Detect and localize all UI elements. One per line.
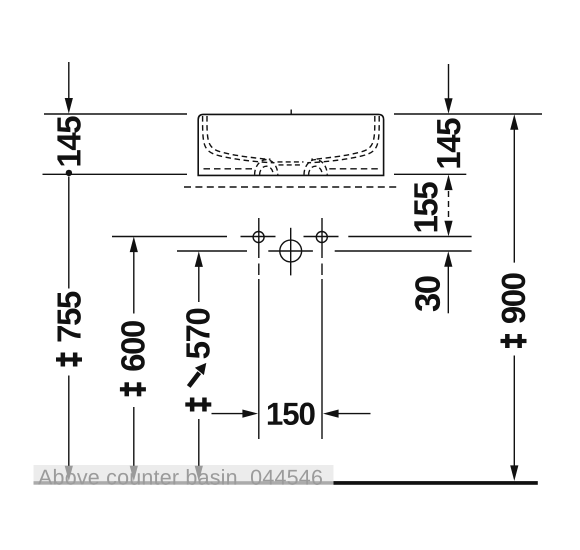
dim 755 shaft lower xyxy=(68,376,70,467)
basin interior dashed profile left xyxy=(203,116,275,163)
basin outline xyxy=(198,114,383,175)
dim 600 arrowhead top xyxy=(130,237,138,253)
dim 570 diagonal bold arrow head xyxy=(195,363,206,375)
dim 30 arrowhead up xyxy=(444,251,452,267)
label 755 xyxy=(58,292,81,342)
dim 150 right extension line xyxy=(321,279,323,439)
dim 570 shaft upper xyxy=(198,266,200,302)
dim 600 shaft upper xyxy=(133,252,135,314)
dim 155 arrowhead up xyxy=(444,175,452,191)
dim 145 left arrow shaft xyxy=(68,62,70,99)
drain arch right xyxy=(304,160,327,175)
small holes level line segments xyxy=(112,236,227,238)
big hole level line segments xyxy=(177,250,247,252)
dashed line below basin xyxy=(184,186,398,188)
rim top reference line right xyxy=(394,113,542,115)
svg-text:Above counter basin 044546: Above counter basin 044546 xyxy=(38,466,323,490)
counter reference line right xyxy=(394,173,466,175)
floor line gray part xyxy=(34,481,334,484)
label 155 xyxy=(414,182,437,231)
dim 155 dashed shaft xyxy=(448,191,450,221)
tap hole vertical centreline xyxy=(290,228,292,276)
symbol adj 900 xyxy=(501,334,527,348)
dim 145 right arrowhead xyxy=(444,98,452,114)
basin inner bottom dashed line xyxy=(204,168,253,170)
label 30 xyxy=(415,276,440,311)
faucet hole left vertical centreline xyxy=(258,218,260,258)
dim 150 left shaft xyxy=(212,413,244,415)
dim 600 arrowhead bottom (gray) xyxy=(130,466,138,482)
symbol adj 600 xyxy=(120,382,146,396)
label 145 left xyxy=(57,116,80,165)
faucet hole right vertical centreline xyxy=(321,218,323,258)
faucet hole right xyxy=(316,232,327,243)
faucet hole left xyxy=(253,232,264,243)
symbol adj 570 xyxy=(185,398,211,412)
label 900 xyxy=(502,273,526,323)
symbol adj 755 xyxy=(56,353,82,367)
counter reference line left xyxy=(43,173,188,175)
basin centre tick xyxy=(290,110,292,115)
dim 145 right arrow shaft xyxy=(448,64,450,99)
dim 900 arrowhead top xyxy=(510,114,518,130)
label 600 xyxy=(121,321,145,371)
dim 150 arrowhead left xyxy=(242,410,258,418)
dim 570 diagonal bold arrow shaft xyxy=(189,373,200,387)
dim 900 shaft upper xyxy=(513,129,515,263)
drain arch left xyxy=(255,160,278,175)
dim 900 shaft lower xyxy=(513,356,515,467)
dim 150 left extension line xyxy=(258,279,260,439)
floor line black part xyxy=(334,481,538,485)
dim 570 arrowhead top xyxy=(195,251,203,267)
dim 150 arrowhead right xyxy=(323,409,339,417)
rim top reference line left xyxy=(44,113,187,115)
reference dot on counter line xyxy=(66,170,72,176)
dim 30 shaft xyxy=(447,266,449,313)
dim 150 right shaft xyxy=(338,413,371,415)
dim 600 shaft lower xyxy=(133,407,135,466)
dim 570 arrowhead bottom (gray) xyxy=(195,466,203,482)
caption band xyxy=(34,465,334,485)
dim 155 arrowhead down xyxy=(444,221,452,237)
tap hole big xyxy=(280,240,302,262)
dim 570 shaft lower xyxy=(198,419,200,466)
label 570 xyxy=(186,309,210,359)
dim 900 arrowhead bottom xyxy=(510,465,518,481)
label 145 right xyxy=(437,118,460,167)
basin interior dashed profile right xyxy=(307,116,379,163)
dim 755 arrowhead bottom (gray) xyxy=(65,466,73,482)
label 150 xyxy=(268,403,315,426)
dim 145 left arrowhead xyxy=(65,98,73,114)
dim 755 shaft upper xyxy=(68,177,70,289)
drain centre dashed lines xyxy=(278,161,304,163)
